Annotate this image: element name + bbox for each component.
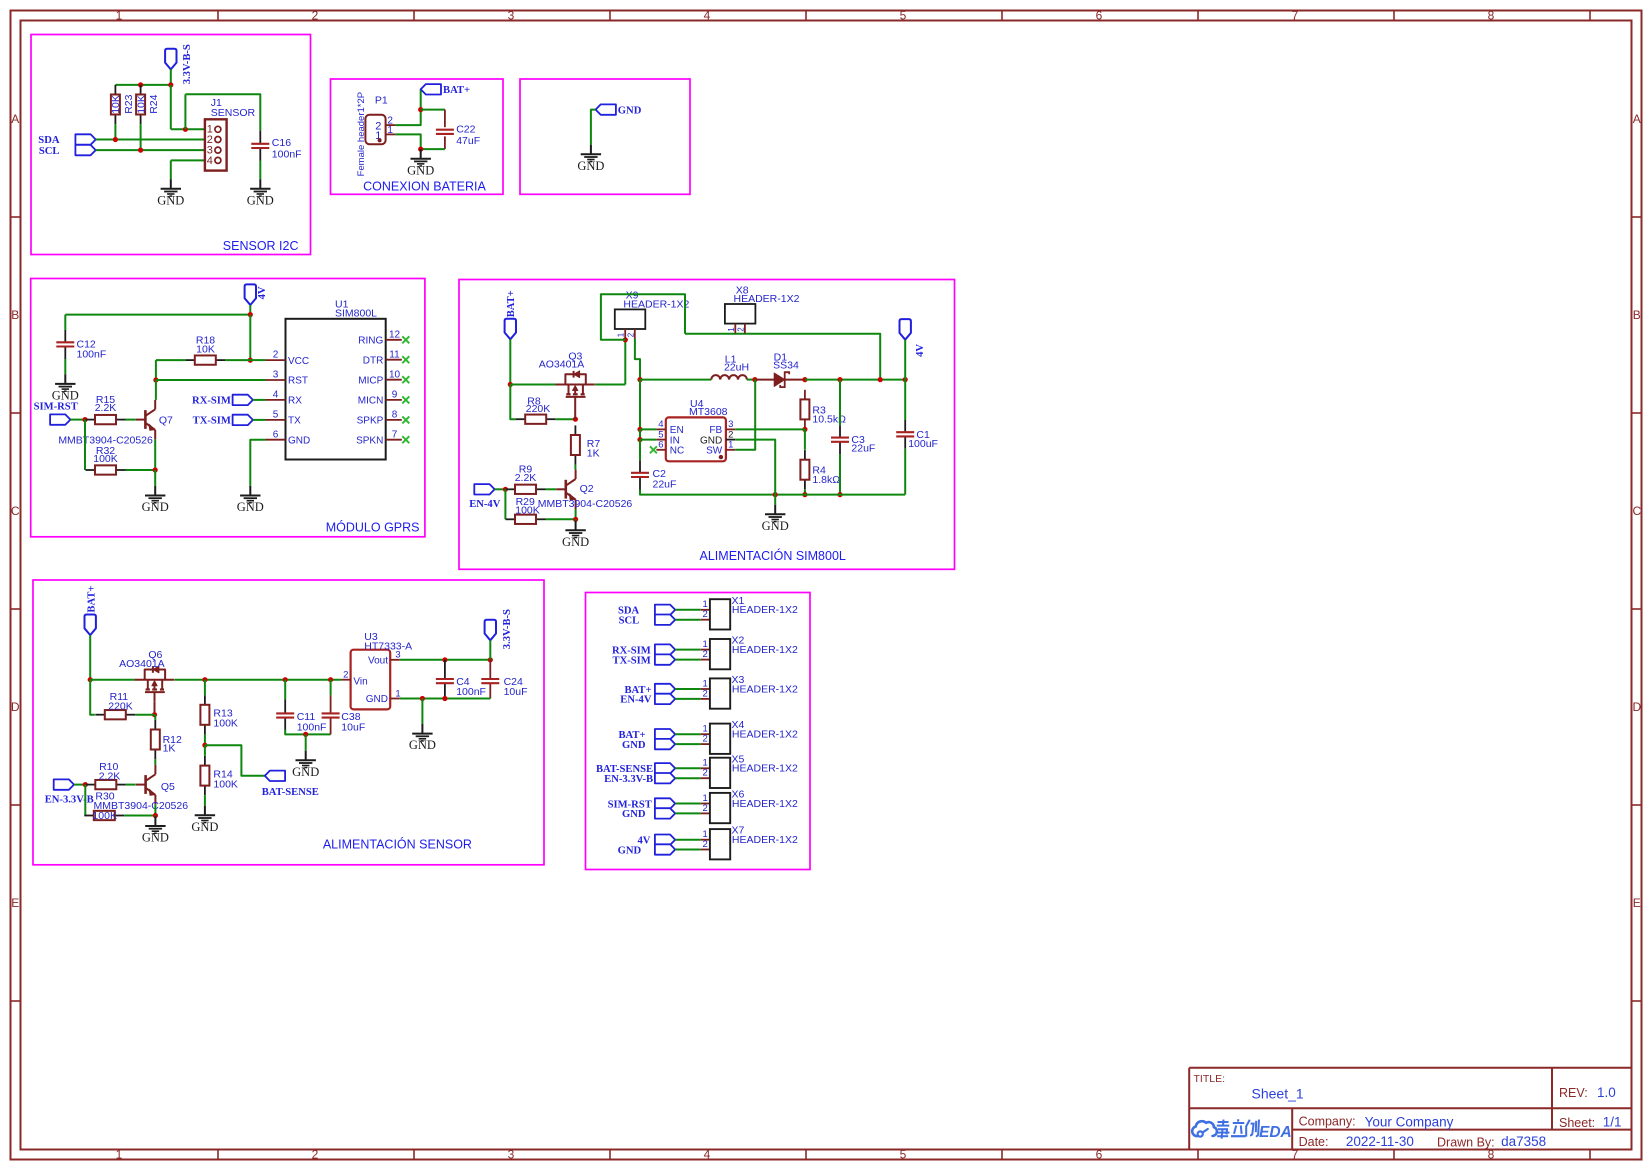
wire GND flag to ground [591,110,596,145]
wire X5 pin1 [675,767,701,769]
wire 3.3V-B-S stem (sensor) [489,640,491,660]
svg-text:MT3608: MT3608 [689,406,728,418]
wire R3-R4 [804,429,806,449]
wire Vout rail [400,659,491,661]
junction RST/Q7 collector [153,377,158,382]
wire to Q3 source [510,384,555,386]
svg-text:2: 2 [626,332,635,337]
net flag 4V (X7) [655,835,675,845]
junction drain/C38 [328,677,333,682]
svg-text:TITLE:: TITLE: [1194,1073,1226,1085]
svg-text:Female header1*2P: Female header1*2P [356,92,367,177]
svg-text:1: 1 [387,125,393,136]
wire C12 to ground [64,359,66,374]
svg-text:GND: GND [409,738,436,752]
svg-text:4: 4 [704,8,711,22]
svg-text:12: 12 [389,329,401,340]
title block border [1189,1068,1632,1150]
resistor R29 [506,496,546,524]
IC U4 pin1 marker dot [719,455,723,459]
svg-text:4V: 4V [257,286,268,299]
svg-text:1: 1 [728,440,733,451]
IC U4 MT3608 body [666,417,726,461]
wire X2 pin1 [675,649,701,651]
svg-text:5: 5 [273,410,279,421]
svg-text:2.2K: 2.2K [99,771,121,783]
svg-text:P1: P1 [375,95,388,107]
IC U3 labels [364,631,412,652]
section box MODULO GPRS [31,279,425,537]
no-connect X pin 8 [402,416,409,423]
wire R18 left [156,359,185,361]
wire to VCC pin [250,359,265,361]
wire pull-up top rail [115,84,170,86]
capacitor C1 [896,420,914,449]
wire X9 pin2 riser [635,339,640,380]
net flag EN-4V [474,484,494,494]
svg-text:Vout: Vout [368,656,388,667]
svg-text:10K: 10K [110,95,122,114]
power flag 3.3V-B-S [165,49,176,70]
net flag BAT+ [421,84,441,94]
IC U3 pin numbers [343,650,400,700]
svg-text:AO3401A: AO3401A [119,658,165,670]
wire R24 to SCL [140,124,142,150]
wire SW to L1/D1 node [735,380,755,450]
ground (Q5 emitter) [142,816,169,844]
resistor R11 [95,691,135,720]
capacitor C16 [251,130,269,161]
svg-text:100nF: 100nF [456,686,486,698]
svg-text:GND: GND [618,845,642,856]
header X3 labels [732,674,798,695]
svg-text:100K: 100K [93,453,118,465]
svg-text:HEADER-1X2: HEADER-1X2 [732,683,798,695]
svg-text:3: 3 [508,8,515,22]
wire 3.3V down to pin1 [170,85,172,129]
frame column ticks bottom [218,1150,1590,1160]
junction drain/R13 [202,677,207,682]
wire P1 pin2 to BAT+ [395,89,420,125]
wire EN-IN [639,429,641,439]
junction pin1/C16 branch [183,127,188,132]
svg-text:SIM-RST: SIM-RST [34,402,78,413]
frame row ticks left [11,217,21,1001]
capacitor C38 [322,695,340,734]
IC U4 labels [689,398,728,418]
svg-text:GND: GND [762,519,789,533]
svg-text:A: A [11,112,19,126]
svg-text:5: 5 [900,8,907,22]
svg-text:2: 2 [736,327,745,332]
capacitor C1 labels [908,429,938,450]
connector P1 [365,115,395,144]
wire 4V stem [249,305,251,315]
svg-text:TX-SIM: TX-SIM [613,655,651,666]
wire to ground stem [774,495,776,505]
svg-text:HEADER-1X2: HEADER-1X2 [732,604,798,616]
svg-text:1: 1 [727,327,736,332]
svg-text:SCL: SCL [39,146,60,157]
net flag GND (X7) [655,844,675,854]
wire down to R30 [84,785,86,816]
svg-text:4: 4 [704,1147,711,1161]
wire R18 to RST node [155,360,157,380]
wire C22 bottom [421,148,445,150]
svg-text:2: 2 [703,734,708,745]
junction R13/R14/BAT-SENSE [202,743,207,748]
net flag RX-SIM (X2) [655,644,675,654]
svg-text:8: 8 [1488,8,1495,22]
header X1 [701,599,731,629]
transistor Q6 labels [119,649,165,670]
wire to C22 top [421,109,445,111]
header X3 pin numbers [703,678,708,699]
wire down to R29 [504,489,506,519]
svg-text:GND: GND [191,820,218,834]
header X2 pin numbers [703,639,708,660]
frame row ticks right [1632,217,1642,1001]
net flag EN-3.3V-B [54,779,74,789]
svg-text:EDA: EDA [1259,1124,1292,1141]
svg-text:AO3401A: AO3401A [539,359,585,371]
resistor R30 [84,791,124,821]
svg-text:C16: C16 [272,137,291,149]
section box headers [586,593,811,870]
svg-text:100K: 100K [213,718,238,730]
svg-text:CONEXION BATERIA: CONEXION BATERIA [363,180,486,194]
svg-text:Vin: Vin [353,676,367,687]
svg-text:2.2K: 2.2K [95,402,117,414]
no-connect X pin 12 [402,336,409,343]
svg-text:SPKN: SPKN [356,435,383,446]
svg-text:220K: 220K [526,403,551,415]
wire Q6 gate lead extend [154,701,156,715]
svg-text:HEADER-1X2: HEADER-1X2 [732,798,798,810]
svg-text:SENSOR: SENSOR [211,107,256,119]
resistor R32 [86,445,126,475]
svg-text:8: 8 [1488,1147,1495,1161]
connector P1 labels [356,92,388,177]
wire top rail to C12 [65,314,250,316]
svg-text:1: 1 [116,1147,123,1161]
wire to ground (U3) [421,699,423,725]
IC U1 right pin numbers [389,329,401,440]
svg-text:100K: 100K [515,504,540,516]
wire X4 pin2 [675,743,701,745]
capacitor C3 [831,425,849,454]
wire X2 pin2 [675,659,701,661]
header X7 [701,829,731,859]
junction R8/gate/R7 [573,417,578,422]
wire to ground (Q5) [154,815,156,818]
svg-text:R30: R30 [95,791,114,803]
wire R13 to divider node [204,734,206,745]
ground (R14) [191,806,218,834]
frame column numbers bottom [116,1147,1495,1161]
svg-text:MICP: MICP [358,375,383,386]
wire X8 row to rail [685,334,880,380]
wire R8 to gate node [556,418,576,420]
wire X6 pin1 [675,803,701,805]
wire gate node to R12 [154,715,156,720]
svg-text:A: A [1633,112,1641,126]
wire IN riser [639,380,641,430]
svg-text:HEADER-1X2: HEADER-1X2 [732,763,798,775]
junction EN row [637,427,642,432]
header X1 labels [732,595,798,616]
svg-text:da7358: da7358 [1501,1134,1546,1149]
wire EN-4V to R9 [495,488,506,490]
svg-text:GND: GND [157,193,184,207]
header X4 pin numbers [703,724,708,745]
wire X3 pin1 [675,688,701,690]
ground (Q7 emitter) [142,486,169,514]
svg-text:Date:: Date: [1299,1135,1329,1149]
net flag BAT+ (X4) [655,729,675,739]
svg-text:3.3V-B-S: 3.3V-B-S [502,609,513,649]
wire EN-3.3V-B to R10 [74,784,85,786]
frame column numbers top [116,8,1495,22]
net flag BAT-SENSE (X5) [655,763,675,773]
capacitor C24 labels [504,676,528,698]
svg-text:SPKP: SPKP [357,416,384,427]
transistor Q5 [136,765,155,804]
section box CONEXION BATERIA [331,79,504,194]
resistor R3 [800,390,846,429]
capacitor C11 labels [297,711,327,734]
header X2 labels [732,635,798,656]
wire R29 to emitter node [546,518,576,520]
svg-text:EN-3.3V-B: EN-3.3V-B [604,774,653,785]
capacitor C4 [436,660,454,699]
junction C4 bottom [442,696,447,701]
svg-text:HT7333-A: HT7333-A [364,640,412,652]
wire to ground (Q7) [154,470,156,486]
svg-text:2: 2 [703,609,708,620]
svg-text:ALIMENTACIÓN SENSOR: ALIMENTACIÓN SENSOR [323,837,472,852]
junction rail/X8 drop [878,377,883,382]
header X9 [615,290,690,339]
section box ALIMENTACION SIM800L [459,280,955,570]
IC U1 right pin names [356,336,384,447]
junction rail/C3 [837,377,842,382]
transistor Q3 labels [539,351,585,371]
svg-text:MMBT3904-C20526: MMBT3904-C20526 [538,498,633,510]
svg-text:SCL: SCL [619,616,640,627]
net flag SDA [75,134,95,144]
svg-text:1: 1 [617,332,626,337]
wire X5 pin2 [675,777,701,779]
capacitor C11 [276,699,294,730]
junction 4V rail [248,312,253,317]
svg-text:GND: GND [247,193,274,207]
svg-text:10uF: 10uF [341,722,365,734]
capacitor C4 labels [456,676,486,698]
wire U1 GND pin to ground [250,440,265,486]
svg-text:2: 2 [703,688,708,699]
svg-text:Drawn By:: Drawn By: [1437,1135,1495,1149]
IC U1 left pin numbers [273,350,279,441]
svg-text:GND: GND [292,765,319,779]
ground (C12) [52,374,79,402]
net flag GND (X6) [655,808,675,818]
svg-text:R24: R24 [148,94,160,113]
junction Vout/C24/3.3V [488,657,493,662]
svg-text:100nF: 100nF [297,722,327,734]
wire R11 to gate node [135,714,154,716]
net flag SCL [75,145,95,155]
no-connect X pin 9 [402,396,409,403]
wire SDA [96,139,205,141]
frame row letters right [1632,112,1641,910]
ground (Q2 emitter) [562,521,589,549]
svg-text:REV:: REV: [1559,1086,1588,1100]
wire Q6 drain to Vin [174,679,341,681]
ground (GND net tie) [577,145,604,173]
wire R10 to Q5 base [126,784,136,786]
svg-text:EN-4V: EN-4V [469,499,501,510]
svg-text:GND: GND [237,500,264,514]
svg-text:4: 4 [207,155,213,167]
svg-text:2: 2 [273,350,279,361]
wire BAT+ to R8 [510,385,515,420]
svg-text:2: 2 [703,768,708,779]
svg-text:6: 6 [658,440,663,451]
net flag EN-3.3V-B (X5) [655,773,675,783]
transistor Q7 [136,400,155,439]
ground (U1) [237,486,264,514]
resistor R24 [136,85,145,124]
header X5 [701,758,731,788]
junction SCL/R24 [138,148,143,153]
resistor R18 [185,334,225,364]
ground (U3) [409,724,436,752]
IC U4 right pin stubs [726,429,735,449]
header X6 labels [732,789,798,810]
svg-text:Sheet:: Sheet: [1559,1116,1595,1130]
wire Q3 drain [595,384,625,386]
svg-text:3.3V-B-S: 3.3V-B-S [182,44,193,84]
IC U1 left pin stubs [266,360,286,440]
capacitor C38 labels [341,711,365,734]
svg-text:GND: GND [618,105,642,116]
svg-text:MICN: MICN [358,396,384,407]
junction R3/R4/FB [802,427,807,432]
power flag BAT+ (sensor) [85,615,96,636]
junction Q2 emitter/R29 [573,517,578,522]
junction U3 GND/ground [420,696,425,701]
svg-text:100K: 100K [213,778,238,790]
svg-text:10.5kΩ: 10.5kΩ [812,414,846,426]
wire R15 to Q7 base [126,419,136,421]
junction IN row [637,437,642,442]
wire SIM-RST to R15 [70,419,85,421]
IC U4 pin names [670,425,723,456]
svg-text:EN-4V: EN-4V [620,695,652,706]
frame column ticks top [218,11,1590,21]
IC U3 HT7333-A body [351,650,391,710]
resistor R14 [200,756,238,795]
wire Q5 emitter down [154,804,156,815]
wire X6 pin2 [675,812,701,814]
frame row letters left [11,112,20,910]
IC U1 SIM800L body [286,319,386,460]
wire FB to divider [735,428,805,430]
power flag 4V (output) [900,319,911,340]
svg-text:MÓDULO GPRS: MÓDULO GPRS [326,520,420,535]
wire BAT+ stem [509,339,511,384]
resistor R7 [571,425,600,464]
svg-text:HEADER-1X2: HEADER-1X2 [732,729,798,741]
wire IN pin [640,439,656,441]
wire C11/C38 bottom [285,730,330,735]
resistor R13 [200,695,238,734]
IC U4 left pin numbers [658,419,663,450]
no-connect X pin 11 [402,356,409,363]
diode D1 SS34 [755,372,805,387]
svg-text:1.0: 1.0 [1597,1085,1616,1100]
junction D1 cathode/R3 [802,377,807,382]
wire C3 to bottom rail [839,454,841,495]
IC U4 right pin numbers [728,419,733,450]
svg-text:4V: 4V [915,344,926,357]
ground (C16) [247,179,274,207]
svg-text:5: 5 [900,1147,907,1161]
junction rail left [637,377,642,382]
svg-text:220K: 220K [108,700,133,712]
IC U3 pin stubs [341,660,399,699]
section box GND flag [520,79,690,194]
wire to C11 [284,680,286,700]
wire RX [253,399,266,401]
connector J1 labels [211,97,256,119]
connector J1 pin numbers [207,124,213,167]
svg-text:Sheet_1: Sheet_1 [1252,1085,1304,1101]
junction X9 pin1 [623,337,628,342]
net flag SIM-RST (X6) [655,798,675,808]
net flag BAT+ (X3) [655,684,675,694]
svg-text:BAT+: BAT+ [86,586,97,613]
wire SCL [96,149,205,151]
svg-text:2: 2 [312,1147,319,1161]
net flag TX-SIM [233,415,253,425]
junction R4/bottom rail [802,492,807,497]
junction emitter/R32 [153,467,158,472]
junction GND/C22 [418,147,423,152]
wire rail to C1 [904,380,906,420]
transistor Q6 AO3401A [135,666,174,701]
svg-text:1/1: 1/1 [1603,1115,1622,1130]
capacitor C2 labels [653,468,677,490]
wire 4V stem (output) [904,340,906,380]
header X5 pin numbers [703,758,708,779]
wire drain to R13 [204,680,206,696]
svg-text:6: 6 [273,429,279,440]
svg-text:HEADER-1X2: HEADER-1X2 [732,644,798,656]
wire R4 to bottom rail [804,489,806,494]
svg-text:22uF: 22uF [653,478,677,490]
header X6 [701,793,731,823]
svg-text:GND: GND [407,163,434,177]
section box SENSOR I2C [31,35,311,255]
junction C11-C38 ground [303,732,308,737]
svg-text:E: E [1633,896,1641,910]
wire X4 pin1 [675,733,701,735]
header X2 [701,639,731,669]
capacitor C16 labels [272,137,302,161]
svg-text:3: 3 [273,370,279,381]
